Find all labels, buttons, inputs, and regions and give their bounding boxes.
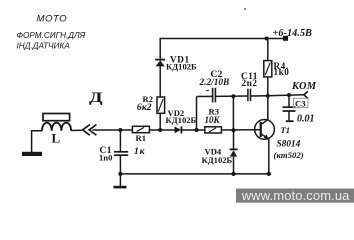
diode VD4 xyxy=(230,149,238,156)
wire C2 to C11 xyxy=(216,95,248,97)
junction bottom C1 xyxy=(118,172,122,176)
junction C3 xyxy=(287,93,291,97)
wire KOM output xyxy=(268,94,304,97)
svg-text:1к: 1к xyxy=(134,146,146,157)
wire VD1 to R2 xyxy=(159,66,161,97)
svg-text:C3: C3 xyxy=(295,98,306,108)
resistor R4 xyxy=(264,39,272,77)
KOM connector chevron xyxy=(304,91,308,98)
svg-text:ІНД.ДАТЧИКА: ІНД.ДАТЧИКА xyxy=(17,42,71,51)
junction top rail / R4 xyxy=(265,37,269,41)
svg-text:L: L xyxy=(52,131,61,146)
resistor R2 xyxy=(157,97,165,113)
wire coil right xyxy=(71,129,82,131)
supply terminal xyxy=(283,36,288,41)
diode VD1 xyxy=(155,60,165,67)
svg-text:КД102Б: КД102Б xyxy=(166,62,197,72)
junction VD4 branch xyxy=(232,128,236,132)
ground chassis bar bottom xyxy=(114,186,127,189)
junction bottom emitter xyxy=(267,172,271,176)
C2 plus mark xyxy=(206,89,209,92)
svg-text:МОТО: МОТО xyxy=(37,13,68,24)
wire emitter down xyxy=(268,139,270,174)
junction C2 branch xyxy=(195,128,199,132)
wire R4 to collector node xyxy=(267,77,269,96)
capacitor C2 xyxy=(213,88,216,103)
svg-text:КД102Б: КД102Б xyxy=(166,115,197,125)
junction bottom VD4 xyxy=(231,172,235,176)
wire C2 row xyxy=(197,95,213,97)
capacitor C3 xyxy=(283,95,296,121)
svg-text:S8014: S8014 xyxy=(277,140,301,150)
resistor R1 xyxy=(132,126,149,132)
ground chassis bar left xyxy=(22,152,42,156)
bottom rail xyxy=(120,173,268,175)
svg-text:ФОРМ.СИГН.ДЛЯ: ФОРМ.СИГН.ДЛЯ xyxy=(17,31,86,40)
diode VD2 xyxy=(175,126,182,133)
watermark bar xyxy=(236,189,354,203)
wire coil left to ground xyxy=(32,131,42,152)
svg-text:(кт502): (кт502) xyxy=(274,150,304,160)
svg-text:0.01: 0.01 xyxy=(297,114,315,125)
svg-text:10К: 10К xyxy=(205,115,221,125)
junction collector node xyxy=(266,94,270,98)
svg-text:КОМ: КОМ xyxy=(291,81,317,92)
svg-text:1k0: 1k0 xyxy=(274,67,290,77)
mid rail wire left xyxy=(93,129,133,131)
capacitor C11 xyxy=(248,89,251,101)
svg-text:+6-14.5В: +6-14.5В xyxy=(273,28,312,39)
wire VD1 branch vertical xyxy=(159,38,161,59)
svg-text:2n2: 2n2 xyxy=(242,79,258,89)
wire VD4 top xyxy=(233,130,235,149)
svg-text:R1: R1 xyxy=(136,133,147,143)
inductor L xyxy=(42,123,71,131)
svg-text:6к2: 6к2 xyxy=(137,102,152,113)
wire junction mid vertical to VD4 xyxy=(232,96,234,130)
wire VD4 bottom xyxy=(233,157,235,174)
svg-text:1n0: 1n0 xyxy=(99,153,112,163)
junction C1 xyxy=(118,128,122,132)
wire R3 to base xyxy=(221,129,260,131)
ground stub bottom xyxy=(119,174,121,186)
wire VD2 to R3 xyxy=(181,129,204,131)
svg-text:Д: Д xyxy=(89,88,103,105)
noise dot xyxy=(244,8,246,10)
top supply rail xyxy=(160,38,286,40)
svg-text:2.2/10В: 2.2/10В xyxy=(199,78,230,88)
svg-text:www.moto.com.ua: www.moto.com.ua xyxy=(241,188,350,203)
junction R2 branch xyxy=(158,128,162,132)
svg-text:КД102Б: КД102Б xyxy=(202,155,233,165)
wire C2 branch vertical xyxy=(196,97,198,131)
wire collector node down xyxy=(267,96,269,120)
inductor core xyxy=(43,114,70,121)
connector chevrons xyxy=(83,125,97,136)
wire R2 to mid rail xyxy=(159,113,161,130)
transistor T1 xyxy=(255,119,275,139)
resistor R3 xyxy=(205,127,222,133)
wire R1 to VD2 xyxy=(149,129,174,131)
capacitor C1 xyxy=(114,130,128,174)
label C3 box xyxy=(293,98,308,107)
svg-text:T1: T1 xyxy=(281,125,291,135)
junction C2-C11 xyxy=(231,94,235,98)
wire C11 to collector node xyxy=(251,95,268,97)
